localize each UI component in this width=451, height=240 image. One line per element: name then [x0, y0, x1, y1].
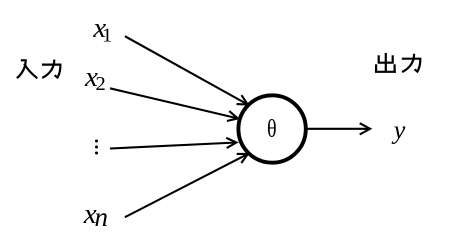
svg-text:θ: θ	[267, 115, 277, 144]
input label x1	[92, 12, 112, 46]
input label x2	[84, 61, 106, 95]
wire from x2 to neuron	[110, 88, 238, 121]
vertical ellipsis dots	[95, 140, 98, 155]
neuron circle U1	[238, 95, 305, 162]
label 入力 (input) kanji 力	[42, 60, 61, 78]
wire from dots to neuron	[110, 138, 236, 149]
threshold label θ	[267, 115, 277, 144]
output wire with arrow to y	[305, 123, 370, 134]
svg-text:y: y	[391, 115, 406, 144]
wire from x1 to neuron	[125, 36, 248, 104]
svg-text:2: 2	[96, 73, 106, 95]
svg-text:n: n	[95, 202, 109, 232]
input label xn	[83, 198, 108, 232]
label 入力 (input) kanji 入	[17, 60, 37, 78]
label 出力 (output) kanji 力	[402, 54, 421, 72]
wire from xn to neuron	[125, 154, 248, 217]
svg-text:1: 1	[102, 24, 112, 46]
label 出力 (output) kanji 出	[375, 53, 396, 72]
